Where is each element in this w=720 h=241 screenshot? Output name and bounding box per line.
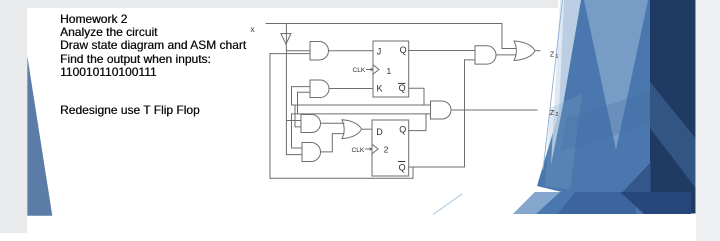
right pale blue sliver layer	[551, 0, 581, 165]
wire AND2 lower input stub	[298, 92, 311, 114]
wire AND1 input from X	[286, 50, 310, 52]
clk1 arrowhead	[371, 68, 374, 72]
svg-text:Q: Q	[399, 162, 406, 172]
wire AND3 output to OR2	[321, 122, 345, 124]
right lower light facet	[545, 94, 582, 190]
bottom band mid facet	[558, 192, 636, 214]
and-gate A1 (J input)	[310, 42, 329, 61]
svg-text:1: 1	[387, 66, 392, 76]
Q-bar1 overline	[399, 82, 405, 84]
clk1 arrow line	[367, 69, 372, 71]
wire left feedback rail	[269, 54, 271, 179]
svg-text:Q: Q	[399, 83, 406, 93]
wire Q2 output to bus	[409, 114, 426, 131]
mass diagonal shade band	[560, 92, 650, 152]
wire J input line	[329, 50, 374, 52]
wire OR1 output to Z1	[535, 50, 540, 52]
navy block light diagonal band	[650, 82, 696, 188]
flip-flop U2 (D) box	[372, 120, 409, 176]
svg-text:1: 1	[555, 54, 558, 60]
svg-text:CLK: CLK	[353, 67, 366, 74]
wire AND1 input from left feedback rail	[270, 53, 310, 55]
homework text block	[60, 13, 246, 80]
svg-text:D: D	[376, 127, 383, 137]
wire Q2 horizontal bus y114	[292, 113, 431, 115]
wire Q-bar1 horizontal bus y105	[292, 104, 431, 106]
Q-bar2 overline	[399, 161, 405, 163]
svg-text:J: J	[377, 47, 382, 57]
wire K input line	[329, 88, 373, 90]
svg-text:Z: Z	[550, 50, 555, 59]
or-gate O2 (to D input)	[342, 120, 362, 139]
outer gray right column	[696, 0, 720, 241]
bottom band navy right facet	[620, 192, 691, 214]
wire Q1 output line	[409, 50, 475, 52]
svg-text:Z: Z	[550, 108, 555, 117]
and-gate A3 (to OR2)	[301, 115, 321, 133]
wire AND2 upper input stub	[292, 87, 311, 105]
wire AND4 input from Q2 bus	[292, 114, 303, 148]
bottom blue band	[513, 192, 691, 214]
and-gate A4 (to OR2)	[302, 143, 321, 162]
outer gray left column	[0, 0, 27, 233]
navy block	[650, 0, 696, 214]
svg-text:2: 2	[555, 112, 558, 118]
wire AND3 input from Q-bar1 bus	[295, 105, 301, 127]
and-gate A2 (K input)	[310, 80, 329, 98]
svg-text:x: x	[251, 25, 255, 34]
wire Q-bar2 to feedback and up rail	[409, 60, 475, 167]
wire Q-bar1 output to bus	[409, 88, 424, 105]
input arrow on X line	[281, 34, 291, 45]
thin long diagonal line	[543, 0, 563, 170]
clk2 arrowhead	[370, 147, 373, 151]
wire AND3 input from X rail	[286, 120, 301, 122]
clk2 arrow line	[366, 148, 371, 150]
wire AND4 output to OR2	[321, 134, 345, 152]
and-gate A6 (to OR1)	[475, 46, 496, 64]
svg-text:CLK: CLK	[352, 147, 365, 154]
navy lower-left dark triangle	[602, 162, 651, 214]
right medium blue wedge	[537, 0, 650, 214]
wire top rail from X tee to Z1 OR gate	[266, 24, 516, 49]
right light blue inner triangle	[584, 0, 648, 150]
flip-flop U1 (JK) box	[373, 41, 409, 97]
outer gray top band	[27, 0, 558, 8]
or-gate O1 (Z1 output)	[514, 41, 535, 61]
wire Z1 AND output	[496, 54, 516, 56]
wire bottom feedback rail	[270, 167, 413, 178]
svg-text:2: 2	[384, 145, 389, 155]
svg-text:K: K	[377, 84, 383, 94]
bottom band light left facet	[513, 192, 560, 214]
left blue triangle	[27, 56, 52, 216]
flip-flop U1 clock wedge	[373, 65, 379, 74]
wire Z2 AND output	[451, 109, 537, 111]
svg-text:Q: Q	[400, 45, 407, 55]
wire X vertical rail	[285, 24, 287, 155]
wire OR2 output to D input	[362, 128, 373, 130]
svg-text:Q: Q	[399, 125, 406, 135]
flip-flop U2 clock wedge	[372, 144, 378, 153]
wire AND4 input from X rail end	[286, 154, 302, 156]
and-gate A5 (Z2 output)	[431, 101, 452, 119]
thin short diagonal line near circuit	[433, 194, 462, 215]
